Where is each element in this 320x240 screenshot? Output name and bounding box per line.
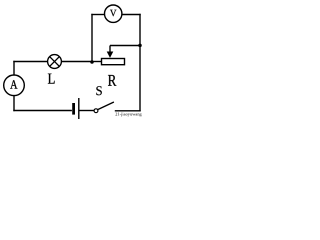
wire ammeter top — [13, 61, 15, 76]
wire junction to rheostat — [92, 61, 102, 63]
wire right vertical from voltmeter — [139, 14, 141, 111]
label R — [108, 75, 116, 86]
node junction dot at resistor left — [90, 60, 94, 64]
switch S lever — [98, 102, 114, 110]
wire switch to bottom right corner — [115, 110, 141, 112]
label L — [48, 74, 55, 84]
rheostat wiper arrow — [107, 52, 114, 58]
battery cell short thick plate — [72, 103, 75, 115]
battery cell long plate — [78, 98, 80, 119]
wire middle ammeter to lamp — [13, 61, 47, 63]
ammeter U-A — [4, 75, 25, 96]
wire wiper shaft — [109, 46, 111, 53]
voltmeter U-V — [105, 5, 122, 22]
svg-text:21-jiaoyuwang: 21-jiaoyuwang — [115, 111, 142, 116]
wire lamp to junction — [61, 61, 92, 63]
wire ammeter bottom — [13, 96, 15, 112]
wire battery to switch — [79, 110, 94, 112]
label S — [96, 86, 101, 95]
resistor R rheostat body — [102, 59, 125, 65]
wire wiper horizontal — [110, 45, 140, 47]
wire top-right of voltmeter — [122, 14, 141, 16]
node junction dot at wiper right — [138, 44, 142, 48]
background — [0, 0, 148, 119]
wire top-left of voltmeter — [91, 14, 104, 16]
switch S pivot — [94, 109, 98, 113]
wire bottom left to battery — [13, 110, 72, 112]
wire left vertical from voltmeter — [91, 14, 93, 62]
lamp L — [48, 55, 62, 69]
